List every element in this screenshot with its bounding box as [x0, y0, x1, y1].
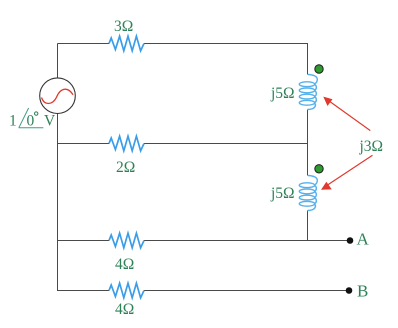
svg-text:3Ω: 3Ω	[114, 18, 133, 35]
svg-text:4Ω: 4Ω	[115, 301, 134, 318]
svg-text:0: 0	[27, 113, 35, 130]
svg-text:B: B	[357, 282, 368, 301]
svg-text:j5Ω: j5Ω	[270, 185, 295, 202]
svg-text:4Ω: 4Ω	[115, 256, 134, 273]
svg-text:j5Ω: j5Ω	[270, 85, 295, 102]
svg-text:j3Ω: j3Ω	[359, 138, 384, 155]
svg-text:V: V	[44, 113, 56, 130]
svg-text:2Ω: 2Ω	[116, 159, 135, 176]
svg-text:A: A	[357, 230, 370, 249]
svg-text:1: 1	[9, 113, 17, 130]
